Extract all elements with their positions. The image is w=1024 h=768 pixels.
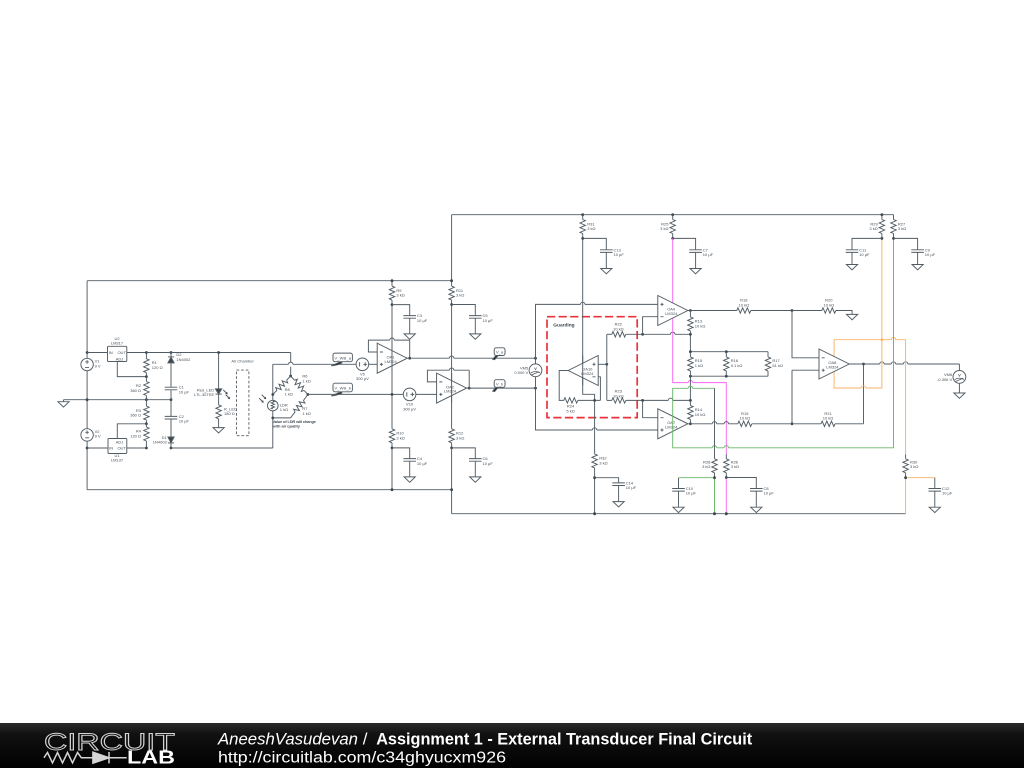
ground below C11 xyxy=(846,263,857,270)
resistor R19 10k xyxy=(738,411,792,427)
regulator U2 LM317 xyxy=(87,336,146,377)
svg-text:V_a: V_a xyxy=(496,350,504,355)
wire top rail (right block) xyxy=(452,214,894,216)
svg-text:10 µF: 10 µF xyxy=(686,491,697,496)
node OA9 output xyxy=(689,309,692,312)
svg-text:360 Ω: 360 Ω xyxy=(130,413,141,418)
svg-text:3 kΩ: 3 kΩ xyxy=(456,435,464,440)
svg-text:V_WB_b: V_WB_b xyxy=(334,386,351,391)
wire magenta R25 net xyxy=(673,238,727,513)
svg-text:3 kΩ: 3 kΩ xyxy=(898,226,906,231)
svg-text:10 µF: 10 µF xyxy=(942,491,953,496)
resistor R20 10k xyxy=(792,298,852,313)
wire V_b down to OA7 plus xyxy=(536,388,658,430)
capacitor C12 10uF xyxy=(929,478,953,506)
resistor R6 1k (bridge top-right) xyxy=(289,374,310,396)
net flag V_a xyxy=(493,348,505,360)
wire R23 to OA7 minus node xyxy=(626,399,691,401)
wire R11/R12 column xyxy=(451,215,453,429)
svg-text:1N4002: 1N4002 xyxy=(176,357,191,362)
resistor R27 3k xyxy=(891,215,906,239)
ground below C6 xyxy=(470,475,481,482)
svg-text:10 µF: 10 µF xyxy=(614,252,625,257)
svg-text:120 Ω: 120 Ω xyxy=(130,433,141,438)
capacitor C1 10uF xyxy=(165,385,190,395)
svg-text:10 µF: 10 µF xyxy=(483,461,494,466)
wire bottom rail (left block) xyxy=(87,489,452,491)
op-amp OA1 LM324 feedback loop xyxy=(368,340,409,358)
footer bar xyxy=(0,723,1024,768)
svg-text:Guarding: Guarding xyxy=(553,323,574,329)
LED chain Red_LED LTL-30TEE xyxy=(194,351,230,399)
resistor R21 10k xyxy=(792,411,864,427)
svg-text:0.000 V: 0.000 V xyxy=(514,370,528,375)
node V_a junction xyxy=(534,357,537,360)
svg-text:LAB: LAB xyxy=(127,748,175,768)
node OA7 output xyxy=(689,422,692,425)
resistor R10 3k xyxy=(389,429,404,448)
resistor R14 10k xyxy=(688,400,706,423)
net flag V_WB_b xyxy=(331,383,352,396)
wire V_a up to OA9 plus xyxy=(536,304,658,358)
resistor R29 3k xyxy=(869,215,884,239)
wire R31 column through guard xyxy=(583,238,595,454)
svg-text:1 kΩ: 1 kΩ xyxy=(285,392,293,397)
svg-text:3 kΩ: 3 kΩ xyxy=(587,226,595,231)
op-amp OA9 LM324 xyxy=(658,296,688,326)
svg-text:LM324: LM324 xyxy=(665,424,678,429)
resistor R1 120 xyxy=(144,353,163,377)
svg-text:9.1 kΩ: 9.1 kΩ xyxy=(731,363,743,368)
svg-text:300 µV: 300 µV xyxy=(403,406,416,411)
svg-text:10 kΩ: 10 kΩ xyxy=(740,416,751,421)
voltage source V1 9V xyxy=(81,358,101,370)
svg-text:120 Ω: 120 Ω xyxy=(152,365,163,370)
wire OA9 out to R18 xyxy=(688,310,737,312)
wire bottom rail (right block) xyxy=(452,513,906,515)
capacitor C9 10uF xyxy=(894,238,936,262)
ground right of R20 xyxy=(847,312,858,319)
wire +9V top rail (left block) xyxy=(87,280,452,282)
resistor R13 10k xyxy=(688,311,706,352)
logo resistor+diode glyph xyxy=(44,752,127,763)
resistor R8 1k (bridge top-left) xyxy=(271,374,293,396)
svg-text:IN: IN xyxy=(109,350,113,355)
parallel gain bank rails R15/R16/R17 xyxy=(690,352,768,377)
resistor R18 10k xyxy=(737,298,792,313)
svg-text:OUT: OUT xyxy=(117,350,126,355)
svg-text:10 kΩ: 10 kΩ xyxy=(824,302,835,307)
wire OA2 output to V_b xyxy=(467,387,536,389)
svg-text:http://circuitlab.com/c34ghyuc: http://circuitlab.com/c34ghyucxm926 xyxy=(218,750,506,767)
wire R22 to OA9 minus node xyxy=(626,333,691,335)
op-amp OA2 LM324 xyxy=(437,373,467,403)
svg-text:10 µF: 10 µF xyxy=(925,252,936,257)
svg-text:ADJ: ADJ xyxy=(116,440,124,445)
svg-text:10 µF: 10 µF xyxy=(417,318,428,323)
svg-text:3 kΩ: 3 kΩ xyxy=(731,464,739,469)
hop R22 wire over magenta xyxy=(671,332,675,334)
wire R28 column xyxy=(714,388,716,459)
ground below C8 xyxy=(751,505,762,512)
svg-text:180 Ω: 180 Ω xyxy=(224,411,235,416)
wire V10 to OA2 plus xyxy=(416,393,437,395)
svg-text:1 kΩ: 1 kΩ xyxy=(280,407,288,412)
svg-text:LTL-30TEE: LTL-30TEE xyxy=(194,392,214,397)
resistor R32 3k xyxy=(592,454,608,468)
svg-text:10 kΩ: 10 kΩ xyxy=(613,393,624,398)
op-amp OA2 feedback loop xyxy=(427,370,469,388)
svg-text:10 µF: 10 µF xyxy=(626,485,637,490)
capacitor C13 10uF xyxy=(583,238,625,266)
resistor R15 1k xyxy=(688,352,703,377)
wire R12 to bottom rails xyxy=(451,448,453,514)
node mid rail junctions xyxy=(86,398,89,401)
resistor R9 3k xyxy=(389,286,404,300)
svg-text:Air Chamber: Air Chamber xyxy=(231,359,254,364)
capacitor C10 10uF xyxy=(672,478,696,506)
svg-text:LM317: LM317 xyxy=(111,340,124,345)
svg-text:10 µF: 10 µF xyxy=(179,389,190,394)
svg-text:with air quality: with air quality xyxy=(272,424,301,429)
source V5 300uV xyxy=(356,358,369,381)
resistor R24 5k xyxy=(564,398,601,414)
wire OA7 out to R19 xyxy=(688,423,738,425)
wire green R27 net xyxy=(673,238,894,513)
svg-text:3 kΩ: 3 kΩ xyxy=(456,293,464,298)
wire OA10 plus to R22/R23 divider xyxy=(598,363,607,365)
resistor R7 1k (bridge bottom-right) xyxy=(288,393,310,420)
ground below C4 xyxy=(404,475,415,482)
node V1 top junction xyxy=(86,351,89,354)
wire OA9 minus stub xyxy=(643,317,658,335)
resistor R_LED 180 xyxy=(216,394,237,426)
resistor R30 3k xyxy=(903,454,918,477)
wire OA8 feedback from output xyxy=(863,364,865,424)
node V2 bottom junction xyxy=(86,447,89,450)
wire bottom rail extension to LDR column xyxy=(171,447,273,449)
svg-text:3 kΩ: 3 kΩ xyxy=(396,293,404,298)
node bridge left xyxy=(271,393,274,396)
ground below C10 xyxy=(673,505,684,512)
svg-text:V_b: V_b xyxy=(496,382,504,387)
svg-text:10 µF: 10 µF xyxy=(483,318,494,323)
svg-text:10 µF: 10 µF xyxy=(764,491,775,496)
photoresistor LDR 1k xyxy=(259,395,288,412)
net flag V_WB_a xyxy=(331,353,352,366)
svg-text:LM324: LM324 xyxy=(826,365,839,370)
svg-text:-0.306 V: -0.306 V xyxy=(937,377,952,382)
svg-text:3 kΩ: 3 kΩ xyxy=(910,464,918,469)
op-amp OA10 LM324 (points left) xyxy=(568,356,598,386)
svg-text:3 kΩ: 3 kΩ xyxy=(396,435,404,440)
capacitor C6 10uF xyxy=(452,448,494,475)
ground below C13 xyxy=(601,267,612,274)
svg-text:10 µF: 10 µF xyxy=(417,461,428,466)
resistor R25 3k xyxy=(660,215,675,239)
ground left xyxy=(58,400,69,407)
voltmeter VM5 0.000V xyxy=(514,358,541,388)
wire mid 0V rail xyxy=(64,399,172,401)
source V10 300uV xyxy=(403,388,416,411)
svg-text:1 kΩ: 1 kΩ xyxy=(695,363,703,368)
svg-text:LM137: LM137 xyxy=(111,458,124,463)
wire OA8 minus from R18/R20 node xyxy=(792,311,819,358)
resistor R3 360 xyxy=(130,400,149,424)
wire OA8 plus column xyxy=(792,370,819,424)
node bridge right xyxy=(307,393,310,396)
node V_b junction xyxy=(534,387,537,390)
svg-text:51 kΩ: 51 kΩ xyxy=(772,363,783,368)
diode D2 1N4002 xyxy=(168,352,191,363)
annotation value of LDR xyxy=(272,419,317,429)
svg-text:3 kΩ: 3 kΩ xyxy=(660,226,668,231)
svg-text:10 kΩ: 10 kΩ xyxy=(739,302,750,307)
wire V_WB_a from LDR top xyxy=(273,363,356,365)
svg-text:1N4002: 1N4002 xyxy=(153,440,168,445)
svg-text:9 V: 9 V xyxy=(95,363,101,368)
svg-text:10 kΩ: 10 kΩ xyxy=(695,323,706,328)
capacitor C8 10uF xyxy=(726,478,774,506)
svg-text:360 Ω: 360 Ω xyxy=(130,388,141,393)
ground below C14 xyxy=(613,500,624,507)
wire left edge V1/V2 column xyxy=(86,281,88,490)
ground below C7 xyxy=(690,267,701,274)
ground below C3 xyxy=(404,332,415,339)
svg-text:1 kΩ: 1 kΩ xyxy=(302,411,310,416)
svg-text:10 µF: 10 µF xyxy=(179,419,190,424)
wire OA8 output to VM6 xyxy=(849,363,959,365)
ground below C5 xyxy=(470,332,481,339)
ground below R_LED xyxy=(213,426,224,433)
ground below C9 xyxy=(912,263,923,270)
voltmeter VM6 -0.306V xyxy=(937,364,966,391)
svg-text:1 kΩ: 1 kΩ xyxy=(302,378,310,383)
wire R32 column to rail xyxy=(594,468,596,514)
capacitor C14 10uF xyxy=(595,478,637,500)
resistor R16 9.1k xyxy=(724,352,743,377)
node rail junctions over colored wires xyxy=(593,512,596,515)
wire bridge feed drop xyxy=(290,353,292,377)
capacitor C2 10uF xyxy=(165,414,190,424)
capacitor C7 10uF xyxy=(673,238,714,266)
resistor R4 120 xyxy=(130,424,149,448)
svg-text:10 kΩ: 10 kΩ xyxy=(695,412,706,417)
net flag V_b xyxy=(493,380,505,392)
voltage source V2 9V xyxy=(81,429,101,441)
svg-text:9 V: 9 V xyxy=(95,434,101,439)
wire OUT rail to air chamber xyxy=(146,352,290,354)
capacitor C3 10uF xyxy=(392,305,428,332)
svg-text:10 kΩ: 10 kΩ xyxy=(823,416,834,421)
svg-text:300 µV: 300 µV xyxy=(356,376,369,381)
resistor R26 3k xyxy=(724,454,739,477)
resistor R28 3k xyxy=(702,459,717,478)
ground below VM6 xyxy=(954,391,965,398)
resistor R23 10k xyxy=(607,389,626,403)
diode D1 1N4002 xyxy=(153,435,174,445)
svg-text:10 µF: 10 µF xyxy=(703,252,714,257)
resistor R17 51k xyxy=(765,352,783,377)
svg-text:10 kΩ: 10 kΩ xyxy=(613,326,624,331)
wire bridge bottom jog xyxy=(273,417,291,419)
svg-text:3 kΩ: 3 kΩ xyxy=(599,460,607,465)
op-amp OA8 LM324 xyxy=(819,349,849,379)
svg-text:3 kΩ: 3 kΩ xyxy=(869,226,877,231)
op-amp OA1 LM324 xyxy=(377,343,407,373)
node bridge bottom corner xyxy=(271,417,274,420)
resistor R11 3k xyxy=(449,286,464,300)
svg-text:ADJ: ADJ xyxy=(116,356,124,361)
ground below C12 xyxy=(929,505,940,512)
resistor R2 360 xyxy=(130,377,149,400)
resistor R22 10k xyxy=(607,322,626,337)
wire D2/C1/C2/D1 column xyxy=(170,353,172,449)
wire R13 column to R14 node xyxy=(689,376,691,400)
capacitor C4 10uF xyxy=(392,448,428,475)
wire orange guard ring OA8 xyxy=(834,238,935,513)
svg-text:LM324: LM324 xyxy=(444,389,457,394)
wire OA7 minus stub xyxy=(643,400,658,417)
regulator U1 LM137 xyxy=(87,424,146,463)
air chamber box xyxy=(231,359,254,436)
op-amp OA7 LM324 xyxy=(658,409,688,439)
node bridge top xyxy=(289,375,292,378)
wire LDR column xyxy=(272,364,274,448)
op-amp OA10 output loop to R24 xyxy=(559,371,568,401)
svg-text:IN: IN xyxy=(109,446,113,451)
wire OA10 minus feedback xyxy=(598,377,600,401)
wire OA1 output to V_a xyxy=(407,357,535,359)
svg-text:V_WB_a: V_WB_a xyxy=(334,355,351,360)
capacitor C11 10uF xyxy=(846,238,882,262)
wire V_WB_b to V10 xyxy=(308,393,403,395)
svg-text:LM324: LM324 xyxy=(384,359,397,364)
wire R10 to bottom rail xyxy=(391,448,393,490)
svg-text:AneeshVasudevan / Assignment 1: AneeshVasudevan / Assignment 1 - Externa… xyxy=(217,730,753,749)
wire R22/R23 left vertical xyxy=(606,334,608,400)
svg-text:3 kΩ: 3 kΩ xyxy=(702,464,710,469)
capacitor C5 10uF xyxy=(452,305,494,332)
wire R9/R10 column xyxy=(391,281,393,429)
svg-text:V: V xyxy=(534,366,537,371)
guard box (red dashed) xyxy=(547,317,637,418)
svg-text:5 kΩ: 5 kΩ xyxy=(566,408,574,413)
resistor R31 3k xyxy=(580,215,596,239)
svg-text:OUT: OUT xyxy=(117,446,126,451)
svg-text:V: V xyxy=(958,373,961,378)
resistor R12 3k xyxy=(449,429,464,448)
svg-text:LM324: LM324 xyxy=(665,311,678,316)
svg-text:10 µF: 10 µF xyxy=(859,252,870,257)
wire V5 to OA1 plus xyxy=(369,363,378,365)
